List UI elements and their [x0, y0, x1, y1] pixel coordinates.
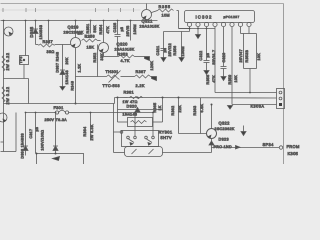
wire pin4 drop to K303A pin1: [214, 27, 216, 93]
wire R355 to IC pin 1: [177, 10, 179, 12]
wire: [4, 78, 29, 80]
svg-text:R354: R354: [99, 25, 103, 35]
IC302 uPC1237: [185, 11, 255, 23]
ground: [204, 71, 209, 75]
svg-text:F301: F301: [54, 106, 64, 110]
svg-text:C328: C328: [113, 23, 117, 33]
svg-text:25V/22: 25V/22: [168, 43, 172, 57]
svg-text:R361: R361: [124, 91, 134, 95]
wire Q319 emitter drop: [75, 48, 77, 104]
TP3 test point: [20, 56, 29, 65]
svg-text:1N4883: 1N4883: [39, 25, 43, 40]
wire C328 column: [117, 21, 119, 35]
wire pin2 ground: [197, 27, 199, 35]
capacitor C322: [204, 60, 210, 62]
wire loop left: [117, 98, 119, 123]
svg-text:µ8: µ8: [206, 53, 210, 58]
wire R357 column: [90, 21, 92, 34]
wire pin1 drop: [189, 27, 191, 32]
wire column: [130, 21, 132, 41]
svg-text:R364: R364: [83, 127, 87, 137]
svg-text:20K: 20K: [65, 57, 69, 65]
wire: [25, 21, 27, 56]
bottom wire to SP34: [212, 147, 280, 149]
svg-text:C321: C321: [156, 46, 160, 56]
diode D323: [209, 141, 214, 145]
transistor Q317 (left edge): [0, 113, 7, 122]
svg-text:1.2K: 1.2K: [78, 63, 82, 72]
svg-text:Q321: Q321: [142, 19, 154, 24]
svg-text:5H7V: 5H7V: [161, 135, 172, 140]
svg-text:R353B: R353B: [245, 50, 249, 63]
resistor R352 column: [97, 45, 99, 77]
faint top rail: [1, 4, 284, 13]
svg-text:FROM: FROM: [287, 144, 300, 149]
capacitor C321: [163, 32, 165, 49]
svg-text:IC302: IC302: [196, 15, 213, 20]
svg-text:µ8: µ8: [120, 27, 124, 32]
wire pin5 drop: [223, 27, 225, 67]
connector K303A: [277, 89, 285, 109]
svg-text:1N4148: 1N4148: [65, 70, 69, 84]
svg-text:R359: R359: [228, 75, 232, 85]
wire relay to Q322 emitter: [163, 152, 212, 154]
svg-text:25V/47: 25V/47: [239, 49, 243, 63]
capacitor C317 column: [35, 113, 37, 154]
long node wire: [115, 97, 277, 100]
resistor R362 column: [178, 98, 180, 134]
ground: [179, 58, 184, 62]
transistor Q322: [207, 129, 217, 139]
relay armature box: [125, 147, 163, 157]
wire to Q322 base: [179, 133, 207, 135]
svg-text:Q320: Q320: [117, 42, 129, 47]
svg-text:10K: 10K: [234, 75, 238, 83]
diode D387 / resistor R348 column: [62, 45, 64, 87]
svg-text:2.2K: 2.2K: [136, 84, 145, 88]
svg-text:33K: 33K: [100, 53, 104, 61]
wire pin3 drop: [206, 27, 208, 61]
wire Q321 to rail: [146, 4, 148, 10]
bottom left box: [37, 154, 84, 168]
main top rail: [1, 20, 158, 22]
transistor Q318: [4, 27, 13, 36]
svg-text:2W 0.22: 2W 0.22: [6, 87, 10, 105]
svg-text:R367: R367: [136, 70, 146, 74]
svg-text:25V/8: 25V/8: [126, 25, 130, 36]
wire Q322 collector: [211, 105, 213, 129]
wire x16 column: [15, 113, 17, 152]
svg-text:100V/100Ω: 100V/100Ω: [41, 130, 45, 151]
svg-text:K303A: K303A: [251, 105, 265, 109]
IC pins: [187, 22, 251, 26]
svg-text:R347: R347: [43, 40, 53, 44]
svg-text:R349: R349: [71, 81, 75, 91]
node junction: [75, 103, 77, 105]
svg-text:C323: C323: [222, 53, 226, 63]
wire Q322 emitter: [211, 139, 213, 148]
wire: [48, 21, 50, 45]
resistor R363 column: [200, 98, 202, 134]
resistor C347/10K column pair: [241, 33, 257, 35]
svg-text:C317: C317: [29, 129, 33, 139]
resistor column 100M: [181, 32, 183, 58]
svg-text:D385: D385: [29, 26, 34, 37]
resistor R364 column: [90, 113, 92, 141]
svg-text:2W 6.8K: 2W 6.8K: [90, 124, 94, 140]
svg-text:120K: 120K: [150, 60, 154, 70]
ground: [228, 106, 233, 110]
svg-text:10M: 10M: [162, 14, 170, 18]
ground: [161, 58, 166, 62]
wire pin bus: [179, 28, 216, 30]
ground: [60, 87, 65, 91]
svg-text:TTC-503: TTC-503: [103, 84, 120, 88]
svg-text:47K: 47K: [106, 26, 110, 34]
transistor Q321: [142, 10, 152, 20]
svg-text:R356: R356: [173, 46, 177, 56]
transistor Q319: [75, 21, 77, 38]
svg-text:R363: R363: [193, 106, 197, 116]
svg-text:6.8K: 6.8K: [200, 103, 204, 112]
svg-text:39Ω: 39Ω: [47, 50, 55, 54]
svg-text:Q322: Q322: [219, 121, 231, 126]
wire pin6 drop to K303A pin3: [231, 27, 233, 105]
svg-text:R365: R365: [153, 103, 157, 113]
svg-text:D320: D320: [127, 104, 137, 108]
wire D385 to R347: [36, 44, 39, 46]
capacitor C323: [221, 66, 227, 68]
diode D385: [33, 29, 38, 34]
svg-text:Q319: Q319: [68, 25, 80, 30]
svg-text:1K: 1K: [78, 32, 83, 36]
wire Q321 to R355: [152, 11, 158, 13]
diode D386 column: [25, 113, 27, 156]
svg-text:R362: R362: [171, 106, 175, 116]
svg-text:100M: 100M: [133, 24, 137, 34]
svg-text:1K: 1K: [158, 105, 162, 110]
svg-text:R352: R352: [93, 53, 97, 63]
svg-text:2SA1015K: 2SA1015K: [140, 25, 160, 29]
wire D320 branch: [118, 109, 163, 111]
svg-text:R358: R358: [206, 75, 210, 85]
svg-text:RY301: RY301: [159, 130, 173, 135]
wire: [35, 21, 37, 45]
svg-text:TP3: TP3: [19, 56, 23, 63]
wire pin1 to C321: [164, 31, 190, 33]
svg-text:K305: K305: [288, 151, 299, 156]
svg-text:15K: 15K: [87, 46, 95, 50]
ground near Q322: [241, 132, 246, 136]
relay coil RY301: [128, 118, 153, 127]
svg-text:22K: 22K: [178, 105, 182, 113]
svg-text:4.7K: 4.7K: [121, 59, 130, 63]
relay contacts: [122, 131, 159, 147]
svg-text:2SC2362K: 2SC2362K: [215, 127, 235, 131]
ground: [152, 77, 157, 81]
svg-text:2W 0.22: 2W 0.22: [6, 53, 10, 71]
svg-text:R358: R358: [85, 35, 95, 39]
svg-text:TH301: TH301: [106, 70, 119, 74]
svg-text:100M: 100M: [181, 46, 185, 56]
svg-text:PRO 1ND: PRO 1ND: [214, 145, 232, 149]
svg-text:µ8: µ8: [35, 127, 39, 132]
ground: [145, 57, 150, 61]
svg-text:SP34: SP34: [263, 142, 275, 147]
wire relay feed column: [113, 104, 115, 153]
wire pin8 drop: [248, 27, 250, 34]
wire R347 to Q319 base: [55, 44, 71, 46]
wire R354 column: [103, 21, 105, 43]
wire R358 tail: [98, 40, 101, 42]
right page border: [283, 4, 285, 165]
svg-text:µ8: µ8: [163, 48, 167, 53]
svg-text:2SA1015K: 2SA1015K: [115, 48, 135, 52]
wire pin7 drop: [240, 27, 242, 34]
transistor Q320: [99, 43, 109, 53]
svg-text:R355: R355: [159, 5, 171, 9]
node junctions on fuse rail: [25, 112, 154, 114]
node junction: [211, 104, 213, 106]
resistor R353: [103, 53, 105, 57]
svg-text:D387 R348: D387 R348: [56, 52, 60, 73]
svg-text:D323: D323: [219, 138, 229, 142]
svg-text:R351: R351: [86, 24, 90, 34]
svg-text:C322: C322: [199, 51, 203, 61]
svg-text:10K: 10K: [257, 53, 261, 61]
ground: [221, 77, 226, 81]
svg-text:56K: 56K: [93, 25, 97, 33]
svg-text:µPC1237: µPC1237: [224, 15, 240, 19]
diode D387b: [55, 113, 57, 154]
wire loop right: [162, 98, 164, 123]
wire left edge vertical: [3, 21, 5, 152]
